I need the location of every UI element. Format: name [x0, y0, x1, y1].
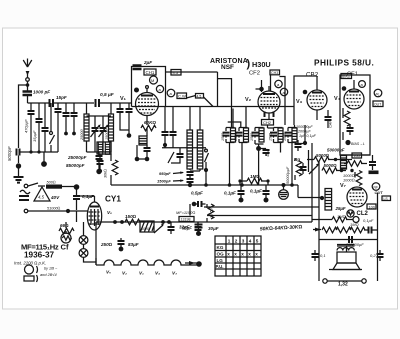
wire top bus right of box: [166, 72, 218, 107]
potentiometer row: [313, 222, 365, 233]
IFT T1 left: [97, 142, 111, 154]
V2 pins: [265, 112, 274, 118]
svg-text:0,1µF: 0,1µF: [363, 218, 374, 223]
capacitor column x173: [170, 107, 177, 148]
node: [135, 157, 140, 162]
capacitor 0,1uF b: [250, 185, 270, 203]
svg-text:CAF: CAF: [329, 120, 333, 128]
svg-text:66Ω: 66Ω: [60, 223, 69, 228]
svg-text:1936-37: 1936-37: [24, 251, 54, 260]
svg-text:0,1µF: 0,1µF: [250, 189, 262, 194]
box 100: [367, 204, 376, 210]
node V4 top: [342, 86, 347, 91]
resistor mains bar: [46, 181, 74, 189]
node: [98, 169, 102, 173]
capacitor 32uF: [168, 222, 190, 234]
svg-text:and 2B√4: and 2B√4: [40, 272, 57, 277]
svg-text:NF: NF: [374, 186, 379, 190]
svg-text:5000pF: 5000pF: [7, 146, 12, 161]
wire: [18, 168, 20, 176]
resistor 30k vertical: [104, 154, 118, 185]
circle electrode V4 a2: [374, 89, 382, 97]
wire speaker right: [377, 193, 379, 281]
capacitor 0,1uF a: [224, 185, 245, 203]
svg-text:470µµF: 470µµF: [24, 119, 29, 133]
wire bottom bus antenna: [19, 151, 59, 153]
svg-text:V₄: V₄: [155, 271, 160, 276]
output transformer bar: [325, 189, 332, 211]
node: [204, 168, 208, 172]
wire top speaker: [319, 239, 378, 241]
capacitor: [63, 103, 70, 135]
svg-text:4: 4: [249, 239, 252, 244]
cap beside Rg: [300, 163, 307, 174]
svg-text:0,2: 0,2: [370, 253, 376, 258]
svg-text:CH2: CH2: [263, 120, 272, 125]
AC plug symbol: [19, 190, 30, 200]
svg-text:13198: 13198: [181, 218, 191, 222]
resistor below V4 box: [344, 161, 367, 167]
IF can 5: [283, 125, 297, 185]
wire main top bus: [28, 102, 49, 104]
svg-text:0,1: 0,1: [320, 253, 326, 258]
node: [66, 209, 70, 213]
circle electrode a: [167, 89, 175, 97]
pickup symbol: [24, 265, 58, 282]
svg-text:30kΩ: 30kΩ: [104, 169, 108, 178]
svg-text:V₁: V₁: [120, 96, 127, 102]
capacitor x45: [42, 103, 49, 152]
svg-text:83µF: 83µF: [128, 242, 139, 247]
cap CAF below V3: [325, 110, 333, 128]
wire frame speaker left: [318, 210, 320, 281]
wire diagonal 1: [187, 96, 196, 99]
arrow diag: [309, 165, 318, 174]
node V4 cathode: [345, 140, 350, 145]
cap right of pot: [363, 218, 378, 234]
svg-text:x: x: [227, 252, 230, 257]
text block MF 115: [14, 243, 69, 266]
box out: [373, 101, 383, 107]
coil choke 2: [197, 107, 203, 170]
svg-text:0,1µF: 0,1µF: [224, 191, 236, 196]
svg-text:2µF: 2µF: [143, 60, 152, 65]
svg-text:40µF: 40µF: [266, 148, 270, 157]
lamp 1: [79, 236, 88, 245]
svg-text:V₅: V₅: [106, 270, 111, 275]
svg-text:KG: KG: [217, 245, 224, 250]
box 2: [196, 94, 204, 99]
capacitor 83uF: [118, 238, 139, 251]
wire branch to IF can 1: [218, 79, 232, 128]
wire link cans: [228, 122, 241, 128]
capacitor 40uF right of node: [261, 148, 270, 157]
resistor vertical 20-50: [207, 204, 214, 222]
svg-text:15pF: 15pF: [56, 95, 67, 100]
wire tuning top: [87, 115, 112, 117]
circle electrode NF: [372, 183, 380, 191]
svg-text:a₂: a₂: [376, 91, 380, 96]
IF can 4: [268, 128, 284, 153]
IF can 1: [221, 109, 236, 186]
circle electrode V2 b: [280, 88, 287, 95]
svg-text:CY1: CY1: [105, 195, 121, 204]
svg-text:500Ω: 500Ω: [47, 181, 56, 185]
svg-text:1,32: 1,32: [338, 282, 348, 288]
ground plate far right: [369, 171, 379, 175]
capacitor 15pF series: [50, 95, 95, 107]
svg-text:1000Ω: 1000Ω: [343, 178, 355, 183]
coil choke 1: [187, 107, 193, 170]
svg-text:CF2: CF2: [249, 71, 260, 77]
svg-text:0,5 µF: 0,5 µF: [100, 92, 115, 98]
svg-text:1585: 1585: [221, 133, 225, 141]
speaker: [329, 246, 362, 270]
circle electrode V2 a: [275, 80, 282, 87]
svg-text:25000: 25000: [80, 129, 84, 141]
capacitor 15uuF: [32, 103, 43, 152]
svg-text:30µF: 30µF: [208, 226, 219, 231]
box 13198: [179, 217, 194, 222]
capacitor pair at 120: [117, 103, 130, 130]
Rg resistor: [294, 157, 302, 180]
svg-text:V₁: V₁: [139, 271, 144, 276]
resistor 5000 second: [322, 163, 354, 173]
node on box left: [134, 88, 139, 93]
node on bus: [188, 183, 192, 187]
resistor 60K below V1: [141, 116, 156, 137]
heater bus y222: [96, 221, 312, 223]
nodes on heater bus: [161, 220, 165, 224]
svg-text:50000µµF: 50000µµF: [286, 166, 290, 184]
wire down from node: [76, 211, 78, 222]
capacitor 0,1uF: [73, 189, 94, 210]
ground dot left: [16, 163, 21, 168]
switch mains: [24, 183, 45, 188]
wire y147.7: [162, 147, 206, 149]
cap top mid: [295, 125, 308, 151]
svg-text:CH3: CH3: [271, 71, 278, 75]
cap pair below: [347, 124, 354, 135]
svg-text:1µF 0,1µF: 1µF 0,1µF: [299, 134, 317, 138]
svg-text:25µF: 25µF: [335, 206, 346, 211]
capacitor: [126, 103, 133, 138]
cap right top: [369, 155, 376, 170]
wire below coils: [190, 169, 200, 171]
wire down: [95, 222, 97, 265]
wire tuning bottom: [87, 151, 112, 153]
node: [74, 184, 80, 190]
label 950pF: [159, 171, 184, 176]
wire CH3 to V2: [270, 75, 272, 91]
svg-text:4.5: 4.5: [173, 70, 179, 75]
wire V2 down: [268, 113, 270, 128]
wire CH3 frame right: [280, 77, 286, 126]
circle electrode V4 a: [359, 81, 366, 88]
svg-text:1585: 1585: [250, 133, 254, 141]
tube CY1: [77, 195, 122, 231]
tuning coil L1: [80, 103, 89, 152]
svg-text:1585: 1585: [234, 133, 238, 141]
wire antenna bypass: [19, 85, 28, 148]
svg-text:LS: LS: [384, 197, 389, 201]
circle electrode M: [150, 76, 158, 84]
svg-text:V₃: V₃: [172, 271, 177, 276]
capacitor below coil b: [187, 179, 194, 184]
svg-text:40V: 40V: [50, 195, 60, 200]
capacitor below T1: [97, 154, 104, 169]
node antenna junction: [26, 83, 30, 87]
svg-text:H30U: H30U: [252, 60, 271, 69]
filter box below V1: [139, 136, 147, 145]
svg-text:P.U.: P.U.: [216, 264, 224, 269]
ground sym above table: [182, 222, 203, 236]
box around V1: [132, 67, 166, 107]
capacitor 25000pF below tuning: [96, 152, 103, 174]
svg-text:V₂: V₂: [245, 97, 252, 103]
svg-text:OUT: OUT: [374, 103, 381, 107]
electrolytic cap: [279, 185, 289, 199]
svg-text:1MΩ: 1MΩ: [350, 222, 359, 227]
choke CH1 box: [144, 69, 156, 75]
tuning coil L2: [105, 103, 114, 152]
wire: [137, 145, 147, 159]
resistor 150: [125, 214, 140, 225]
lamp 2: [79, 249, 88, 258]
wire lamps: [84, 222, 97, 265]
svg-text:1: 1: [228, 239, 231, 244]
capacitor: [71, 103, 78, 135]
capacitor 5000pF: [7, 146, 20, 163]
svg-text:250Ω: 250Ω: [100, 242, 113, 247]
resistor plate V7 vertical: [355, 171, 362, 186]
svg-text:51000Ω: 51000Ω: [47, 207, 61, 211]
resistor 5000 top: [307, 153, 352, 162]
svg-text:CH1: CH1: [146, 70, 155, 75]
node end of chain: [196, 261, 202, 267]
switch S1: [50, 103, 55, 152]
svg-text:20-50: 20-50: [210, 207, 214, 219]
svg-text:V₆: V₆: [107, 210, 112, 215]
arrow wire into dot: [185, 261, 199, 265]
svg-text:15µµF: 15µµF: [32, 130, 37, 142]
svg-text:MF=1150Ω: MF=1150Ω: [176, 210, 195, 215]
svg-text:50000µF: 50000µF: [327, 148, 345, 153]
capacitor 470pF to ground bus: [24, 103, 35, 152]
wire diagonal 2: [204, 97, 214, 107]
nodes on bus y185: [228, 183, 232, 187]
svg-text:V₇: V₇: [340, 183, 346, 189]
svg-text:BIAS: BIAS: [342, 75, 350, 79]
vertical wires right area: [311, 143, 313, 222]
wire bottom of V4 box: [340, 154, 370, 156]
svg-text:M: M: [151, 78, 154, 83]
box BIAS: [341, 74, 352, 79]
vertical x190: [189, 204, 191, 216]
capacitor 2uF top left: [133, 60, 153, 69]
box around V4: [340, 75, 370, 155]
svg-text:LG: LG: [217, 258, 224, 263]
label ARISTONA NSF H30U CF2: [210, 58, 271, 77]
svg-text:by 2B ~: by 2B ~: [44, 266, 58, 271]
capacitor pair mid: [55, 103, 62, 152]
box CW: [177, 93, 187, 99]
wire below V3: [316, 110, 318, 120]
tube V1: [136, 86, 159, 116]
node on bus: [282, 183, 286, 187]
node left of transformer: [320, 196, 324, 200]
wire bus y106: [132, 106, 295, 108]
svg-text:1000 pF: 1000 pF: [33, 90, 50, 95]
small box right: [352, 153, 362, 158]
svg-text:95µF: 95µF: [182, 226, 192, 231]
svg-text:150Ω: 150Ω: [125, 214, 137, 219]
svg-text:Cf: Cf: [61, 243, 69, 252]
arrow pot heater: [154, 225, 163, 233]
wire y219 right: [312, 219, 329, 221]
svg-text:C.W: C.W: [178, 94, 186, 99]
wire grid V2: [256, 80, 262, 92]
variable capacitor C1: [91, 116, 101, 152]
cap right 0,1: [370, 250, 384, 261]
svg-text:OG: OG: [217, 252, 225, 257]
label 1500pF: [157, 179, 184, 184]
svg-text:OUT: OUT: [375, 191, 384, 195]
capacitor below coil a: [187, 172, 194, 178]
triangle 4,5: [34, 187, 60, 201]
variable capacitor C2: [99, 116, 109, 152]
svg-text:3: 3: [242, 239, 245, 244]
svg-text:0,5µF: 0,5µF: [191, 191, 203, 196]
capacitor 1000pF: [23, 90, 51, 104]
lamp motor circle: [61, 233, 72, 243]
tube V4: [344, 80, 364, 109]
capacitor 0,5uF series: [96, 92, 132, 107]
box CH2 below V2: [262, 120, 274, 126]
ground: [14, 177, 24, 183]
svg-text:CL2: CL2: [357, 211, 369, 217]
svg-text:85000pF: 85000pF: [66, 163, 85, 168]
choke CH3 box above V2: [270, 70, 280, 75]
node: [29, 150, 32, 153]
resistor 1M horizontal: [329, 214, 359, 223]
IF can 3: [250, 128, 264, 148]
terminals: [323, 279, 366, 288]
circle cap W: [347, 210, 354, 217]
tube V7 output: [347, 187, 367, 207]
svg-text:x: x: [255, 252, 258, 257]
svg-text:4,5: 4,5: [38, 195, 45, 200]
svg-text:1585: 1585: [269, 133, 273, 141]
tube V2: [258, 86, 280, 113]
circle electrode g: [156, 85, 163, 92]
node: [113, 220, 117, 224]
box LS: [382, 196, 391, 201]
svg-text:100: 100: [369, 206, 375, 210]
resistor 1M mid: [238, 174, 269, 185]
svg-text:V₃: V₃: [296, 99, 303, 105]
node below can 3: [256, 146, 261, 151]
speaker transformer: [337, 245, 355, 251]
svg-text:NSF: NSF: [221, 64, 234, 71]
svg-text:1500pF: 1500pF: [157, 179, 171, 184]
svg-text:2: 2: [235, 239, 238, 244]
lower mains wire: [24, 207, 66, 213]
capacitor mid x180: [171, 148, 184, 163]
cap left 0,1: [312, 250, 326, 261]
ground dot: [41, 161, 47, 167]
bus y215.5: [207, 215, 312, 217]
long bus y185: [111, 184, 298, 186]
box 4000 hatched: [140, 221, 154, 232]
wire bus y185 to transformer: [298, 185, 322, 198]
wire CB2 frame: [294, 76, 317, 125]
svg-text:): ): [247, 58, 251, 70]
switch mid x206: [205, 149, 209, 168]
label PHILIPS 58/U: [306, 58, 374, 79]
svg-text:x: x: [234, 252, 237, 257]
svg-text:4000: 4000: [141, 227, 149, 231]
svg-text:5: 5: [256, 239, 259, 244]
svg-text:BIAS→L: BIAS→L: [351, 142, 365, 146]
svg-text:x: x: [248, 252, 251, 257]
switch in box: [168, 152, 174, 163]
capacitor column x165: [162, 107, 169, 148]
cap pair 200000: [345, 236, 364, 247]
svg-text:950pF: 950pF: [159, 171, 171, 176]
resistor vertical below V4: [343, 108, 350, 140]
capacitor 0,5uF bottom left: [191, 191, 206, 208]
resistor 66: [59, 222, 74, 234]
heater bumps: [96, 260, 197, 265]
capacitor right: [195, 222, 202, 234]
svg-text:4.5: 4.5: [197, 94, 202, 98]
capacitor below box: [144, 145, 151, 161]
node V3 left: [303, 90, 308, 95]
svg-text:V₂: V₂: [122, 271, 127, 276]
bus y207: [204, 206, 319, 208]
IF can 2: [234, 107, 249, 186]
svg-text:25000pF: 25000pF: [67, 155, 87, 160]
table: [215, 236, 261, 276]
small box 45: [171, 70, 181, 76]
antenna: [23, 59, 32, 92]
node left of V2 grid: [259, 87, 264, 92]
svg-text:1585: 1585: [283, 133, 287, 141]
tube V3: [307, 76, 327, 110]
svg-text:PHILIPS 58/U.: PHILIPS 58/U.: [314, 58, 374, 68]
svg-text:x: x: [241, 252, 244, 257]
coil below V4 box: [341, 156, 347, 170]
svg-text:2000µF: 2000µF: [297, 130, 311, 134]
